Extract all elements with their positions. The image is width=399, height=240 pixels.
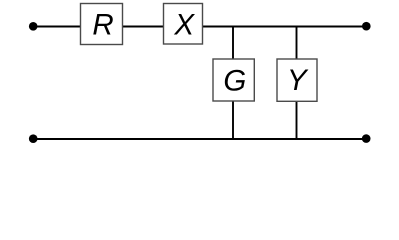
svg-text:G: G [223,64,246,97]
terminal dot top-right [362,22,371,31]
wire shunt G upper [232,27,234,61]
wire between R and X [122,26,164,28]
terminal dot bottom-left [29,134,38,143]
svg-text:R: R [92,9,113,42]
wire shunt Y lower [296,100,298,139]
admittance box Y [277,59,317,101]
svg-text:Y: Y [287,64,309,97]
resistance box R [81,4,123,45]
wire bottom [33,138,366,140]
conductance box G [213,59,254,101]
wire shunt Y upper [296,27,298,61]
svg-text:X: X [173,9,195,42]
wire shunt G lower [232,100,234,139]
terminal dot top-left [29,22,38,31]
wire top-left segment [33,26,81,28]
reactance box X [164,4,203,45]
terminal dot bottom-right [362,134,371,143]
wire top-right segment [202,26,366,28]
